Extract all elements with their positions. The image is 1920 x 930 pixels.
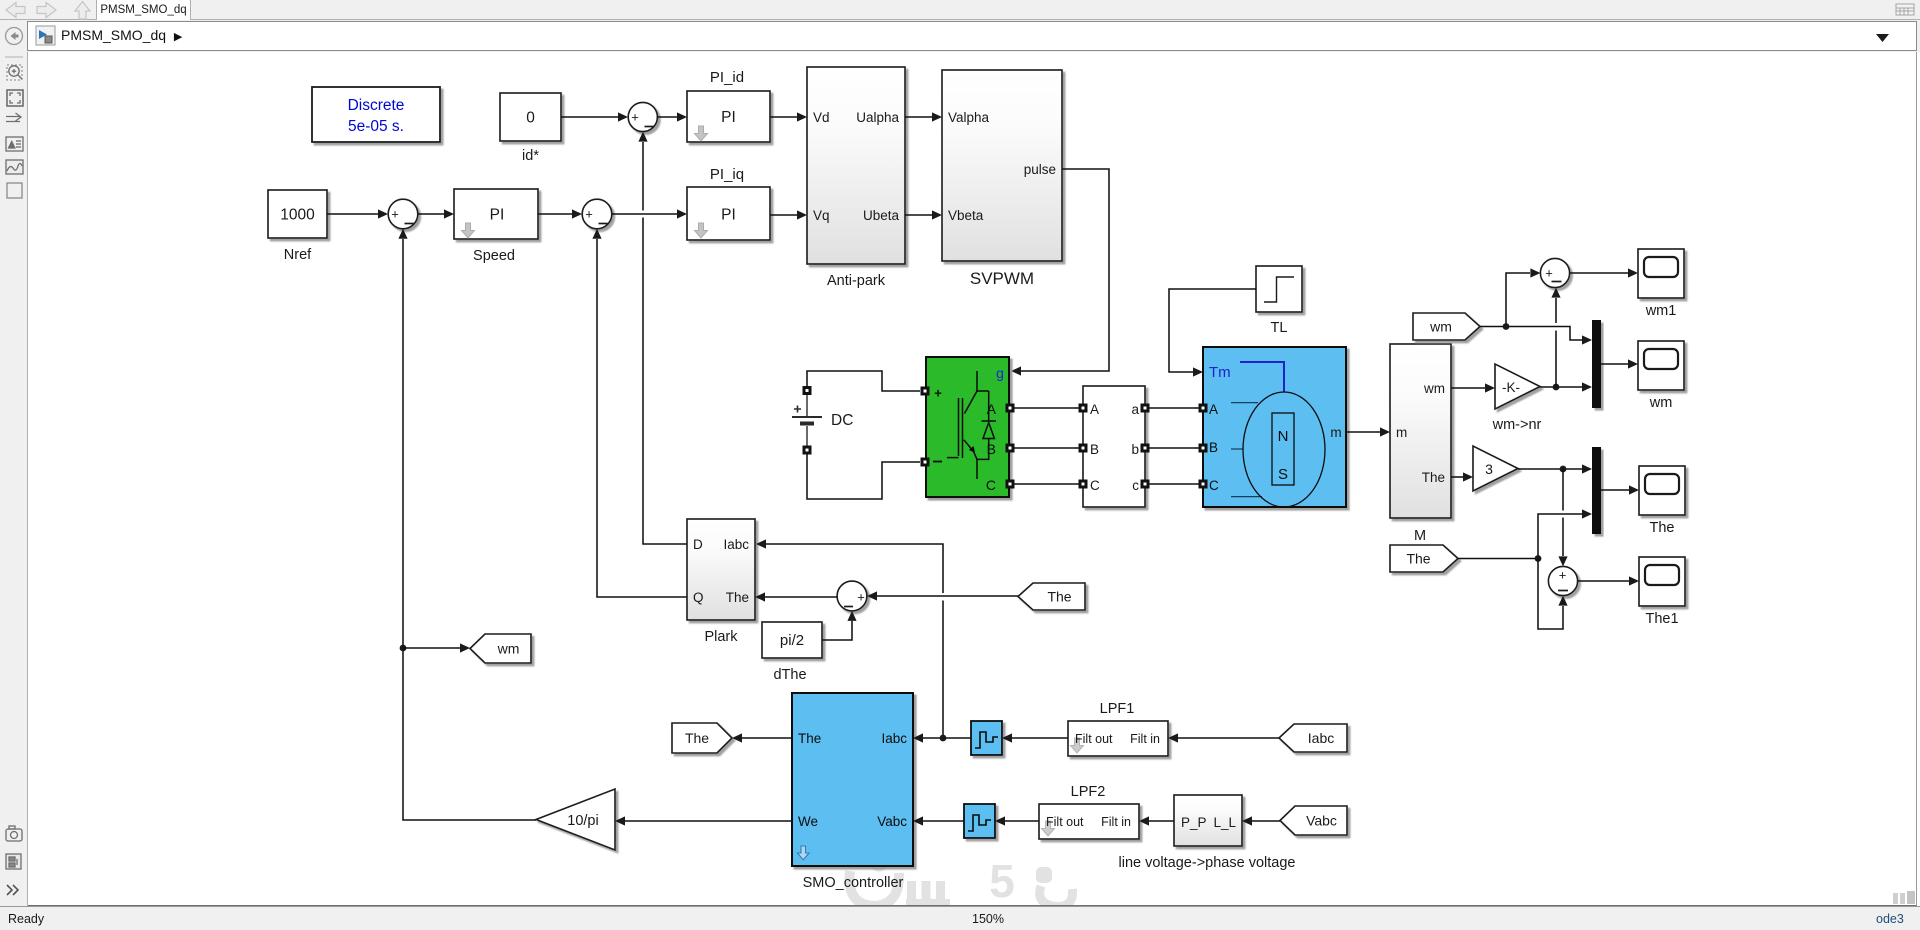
- from tag Iabc: [1279, 724, 1347, 752]
- svg-text:line voltage->phase voltage: line voltage->phase voltage: [1119, 855, 1296, 871]
- wire id* to sum: [561, 116, 618, 118]
- wire junction down to sum top: [1562, 469, 1564, 556]
- rate transition 1 (blue): [971, 721, 1002, 755]
- svg-text:+: +: [857, 590, 865, 605]
- wire c to motor C: [1149, 483, 1199, 485]
- wire mux to scope wm: [1601, 363, 1628, 365]
- scope The: [1639, 466, 1685, 515]
- svg-text:A: A: [1090, 402, 1099, 417]
- node inverter - port: [921, 458, 930, 467]
- wire b to motor B: [1149, 447, 1199, 449]
- wire DC- to inverter: [807, 453, 920, 499]
- svg-text:M: M: [1414, 528, 1426, 544]
- svg-text:wm: wm: [1423, 381, 1445, 396]
- svg-text:The: The: [798, 731, 821, 746]
- svg-text:b: b: [1131, 442, 1139, 457]
- wire PI_id to Vd: [770, 116, 797, 118]
- svg-text:We: We: [798, 814, 818, 829]
- wire pi/2 to sum: [822, 621, 852, 640]
- svg-text:+: +: [585, 207, 593, 222]
- wire sum to PI_iq: [612, 213, 677, 215]
- wire Speed PI to sum: [538, 213, 572, 215]
- constant id* 0: [500, 93, 561, 141]
- gain wm->nr: [1495, 364, 1540, 409]
- svg-text:Ualpha: Ualpha: [856, 110, 899, 125]
- svg-text:1000: 1000: [280, 207, 315, 224]
- subsystem Plark: [687, 519, 755, 620]
- wire junction to sum bottom: [1555, 298, 1557, 387]
- svg-text:LPF2: LPF2: [1071, 784, 1106, 800]
- converter P_P L_L: [1174, 795, 1242, 846]
- node DC- port: [803, 446, 812, 455]
- svg-text:DC: DC: [831, 412, 853, 429]
- svg-text:m: m: [1396, 425, 1407, 440]
- constant pi/2: [762, 622, 822, 658]
- sum junction The1: [1548, 566, 1577, 595]
- svg-text:LPF1: LPF1: [1100, 701, 1135, 717]
- PMSM motor block (blue): [1203, 347, 1346, 507]
- node inverter B port: [1006, 444, 1015, 453]
- wire Ualpha to Valpha: [905, 116, 932, 118]
- svg-text:The: The: [1047, 589, 1071, 605]
- PI controller Speed: [454, 189, 538, 239]
- wire sum to PI_id: [657, 116, 677, 118]
- wire P_P to LPF2: [1149, 820, 1174, 822]
- svg-text:Anti-park: Anti-park: [827, 273, 886, 289]
- constant Nref 1000: [268, 190, 327, 238]
- svg-text:S: S: [1278, 466, 1288, 483]
- left toolbar: [0, 52, 28, 906]
- svg-text:+: +: [391, 207, 399, 222]
- node measure B port: [1079, 444, 1088, 453]
- rate transition 2 (blue): [964, 804, 995, 838]
- svg-text:SMO_controller: SMO_controller: [803, 875, 904, 891]
- svg-text:5e-05 s.: 5e-05 s.: [348, 118, 404, 135]
- svg-text:The: The: [685, 730, 709, 746]
- wire We feedback to speed sum: [403, 239, 536, 820]
- wire gain 3 to mux: [1518, 468, 1582, 470]
- svg-text:Filt out: Filt out: [1046, 815, 1084, 829]
- svg-text:Iabc: Iabc: [1308, 730, 1334, 746]
- svg-text:g: g: [996, 365, 1004, 381]
- node motor B port: [1199, 444, 1208, 453]
- wire junction up to sum: [1506, 273, 1530, 327]
- node motor C port: [1199, 480, 1208, 489]
- svg-text:C: C: [1090, 478, 1100, 493]
- wire sum to Speed PI: [418, 213, 444, 215]
- svg-text:Filt out: Filt out: [1075, 732, 1113, 746]
- goto tag wm: [470, 634, 531, 663]
- svg-text:Ubeta: Ubeta: [863, 208, 900, 223]
- svg-text:0: 0: [526, 110, 535, 127]
- step source TL: [1256, 266, 1302, 312]
- wire RT1 to SMO Iabc: [923, 737, 971, 739]
- svg-text:3: 3: [1485, 461, 1493, 477]
- node measure C port: [1079, 480, 1088, 489]
- svg-text:Vd: Vd: [813, 110, 830, 125]
- wire junction around to sum bottom: [1538, 559, 1563, 630]
- svg-text:pi/2: pi/2: [780, 632, 804, 649]
- node measure A port: [1079, 404, 1088, 413]
- svg-text:Nref: Nref: [284, 247, 312, 263]
- node measure c port: [1141, 480, 1150, 489]
- wire inverter A to measure A: [1014, 407, 1079, 409]
- svg-text:Q: Q: [693, 590, 704, 605]
- wire sum to Plark The: [765, 596, 837, 598]
- wire mux to scope The: [1601, 489, 1629, 491]
- observer SMO_controller (blue): [792, 693, 913, 866]
- wire Iabc junction to Plark: [766, 544, 943, 738]
- svg-text:The: The: [1650, 520, 1675, 536]
- wire Ubeta to Vbeta: [905, 214, 932, 216]
- svg-text:+: +: [934, 386, 942, 401]
- wire Iabc tag to LPF1: [1178, 737, 1279, 739]
- node measure a port: [1141, 404, 1150, 413]
- wire Vabc tag to P_P: [1252, 820, 1280, 822]
- svg-text:PI: PI: [721, 109, 736, 126]
- inverter IGBT bridge (green): [926, 357, 1009, 497]
- svg-text:+: +: [1559, 568, 1567, 583]
- annotation Discrete 5e-05: [312, 87, 440, 142]
- scope wm1: [1638, 249, 1684, 298]
- svg-text:-K-: -K-: [1502, 380, 1520, 395]
- svg-text:P_P: P_P: [1181, 815, 1207, 830]
- svg-text:A: A: [1209, 402, 1218, 417]
- svg-text:Filt in: Filt in: [1130, 732, 1160, 746]
- mux The: [1592, 447, 1601, 534]
- three-phase measurement block: [1083, 386, 1145, 507]
- goto tag The output of SMO: [672, 723, 732, 753]
- svg-text:Filt in: Filt in: [1101, 815, 1131, 829]
- svg-text:id*: id*: [522, 148, 539, 164]
- from tag The (right side): [1390, 545, 1458, 572]
- svg-text:+: +: [631, 110, 639, 125]
- wire SMO The to tag: [742, 737, 792, 739]
- wire M The to gain 3: [1451, 476, 1463, 478]
- svg-text:5: 5: [989, 855, 1015, 905]
- svg-text:pulse: pulse: [1024, 162, 1056, 177]
- wire SMO We to gain: [625, 820, 792, 822]
- svg-text:The: The: [1422, 470, 1445, 485]
- svg-text:L_L: L_L: [1213, 815, 1236, 830]
- svg-text:D: D: [693, 537, 703, 552]
- svg-text:C: C: [986, 477, 996, 493]
- watermark: [850, 863, 1073, 907]
- breadcrumb bar: [0, 20, 1920, 52]
- node inverter C port: [1006, 480, 1015, 489]
- wire junction to mux input1: [1506, 327, 1582, 341]
- svg-text:Vabc: Vabc: [1306, 813, 1337, 829]
- svg-text:Vbeta: Vbeta: [948, 208, 984, 223]
- svg-text:Iabc: Iabc: [723, 537, 749, 552]
- svg-text:C: C: [1209, 478, 1219, 493]
- svg-text:The: The: [726, 590, 749, 605]
- gain 10/pi: [536, 789, 615, 850]
- wire M wm to gain: [1451, 387, 1485, 389]
- subsystem Anti-park: [807, 67, 905, 264]
- svg-text:N: N: [1278, 428, 1289, 445]
- status bar: [0, 906, 1920, 930]
- wire LPF2 to RT2: [1005, 820, 1039, 822]
- wire RT2 to SMO Vabc: [923, 820, 964, 822]
- svg-text:The1: The1: [1645, 611, 1678, 627]
- svg-text:B: B: [987, 441, 996, 457]
- sum junction dThe: [837, 581, 867, 611]
- wire D feedback to id sum: [643, 142, 687, 544]
- svg-text:Plark: Plark: [704, 629, 738, 645]
- svg-text:The: The: [1406, 551, 1430, 567]
- wire LPF1 to RT1: [1012, 737, 1068, 739]
- wire The tag to sum: [877, 595, 1018, 597]
- wire gain to mux input2: [1540, 386, 1582, 388]
- wire a to motor A: [1149, 407, 1199, 409]
- node inverter + port: [921, 387, 930, 396]
- sum junction wm1: [1540, 258, 1569, 287]
- svg-text:dThe: dThe: [773, 667, 806, 683]
- svg-text:c: c: [1132, 478, 1139, 493]
- measurement demux M: [1390, 344, 1451, 518]
- node motor A port: [1199, 404, 1208, 413]
- wire wm tag to junction: [1480, 326, 1506, 328]
- node measure b port: [1141, 444, 1150, 453]
- svg-text:PI: PI: [490, 207, 505, 224]
- svg-text:a: a: [1131, 402, 1139, 417]
- svg-text:m: m: [1330, 425, 1341, 440]
- DC source battery: [792, 394, 822, 446]
- subsystem SVPWM: [942, 70, 1062, 261]
- svg-text:Vq: Vq: [813, 208, 830, 223]
- scope wm: [1638, 341, 1684, 390]
- svg-text:Iabc: Iabc: [881, 731, 907, 746]
- tab bar: [0, 0, 1920, 20]
- svg-text:Valpha: Valpha: [948, 110, 990, 125]
- resize grip: [1893, 891, 1917, 905]
- from tag wm: [1413, 313, 1480, 340]
- gain 3: [1473, 446, 1518, 491]
- svg-text:PI_id: PI_id: [710, 69, 744, 86]
- wire sum to scope wm1: [1570, 272, 1628, 274]
- wire sum to scope The1: [1578, 580, 1629, 582]
- svg-text:wm: wm: [497, 641, 520, 657]
- wire junction to mux input2: [1538, 514, 1582, 559]
- from tag Vabc: [1280, 806, 1347, 835]
- svg-text:wm: wm: [1429, 319, 1452, 335]
- svg-text:wm1: wm1: [1645, 303, 1677, 319]
- svg-text:B: B: [1090, 442, 1099, 457]
- svg-text:A: A: [987, 401, 997, 417]
- svg-text:Discrete: Discrete: [348, 97, 405, 114]
- wire PI_iq to Vq: [770, 214, 797, 216]
- svg-text:Tm: Tm: [1209, 364, 1231, 381]
- sum junction id loop: [628, 102, 657, 131]
- wire The tag to junction: [1458, 558, 1538, 560]
- svg-text:+: +: [1545, 266, 1553, 281]
- sum junction speed loop: [388, 199, 418, 229]
- wire Nref to sum: [327, 213, 378, 215]
- node inverter A port: [1006, 404, 1015, 413]
- wire inverter B to measure B: [1014, 447, 1079, 449]
- wire Q feedback to iq sum: [597, 239, 687, 597]
- wire pulse to inverter g: [1021, 169, 1109, 371]
- svg-text:Vabc: Vabc: [877, 814, 907, 829]
- wire inverter C to measure C: [1014, 483, 1079, 485]
- node DC+ port: [803, 386, 812, 395]
- from tag The near Plark: [1018, 583, 1085, 610]
- svg-text:Speed: Speed: [473, 248, 515, 264]
- svg-text:PI: PI: [721, 207, 736, 224]
- svg-text:B: B: [1209, 440, 1218, 455]
- wire DC+ to inverter: [807, 371, 920, 391]
- svg-text:10/pi: 10/pi: [567, 813, 598, 829]
- sum junction iq loop: [582, 199, 612, 229]
- svg-text:PI_iq: PI_iq: [710, 166, 744, 183]
- wire TL to motor Tm: [1169, 289, 1256, 372]
- scope The1: [1639, 557, 1685, 606]
- svg-text:wm->nr: wm->nr: [1492, 417, 1542, 433]
- wire motor m to M: [1346, 431, 1380, 433]
- svg-text:SVPWM: SVPWM: [970, 269, 1034, 288]
- svg-text:TL: TL: [1271, 320, 1288, 336]
- svg-text:wm: wm: [1649, 395, 1673, 411]
- mux wm: [1592, 320, 1601, 408]
- wire to wm goto: [403, 647, 460, 649]
